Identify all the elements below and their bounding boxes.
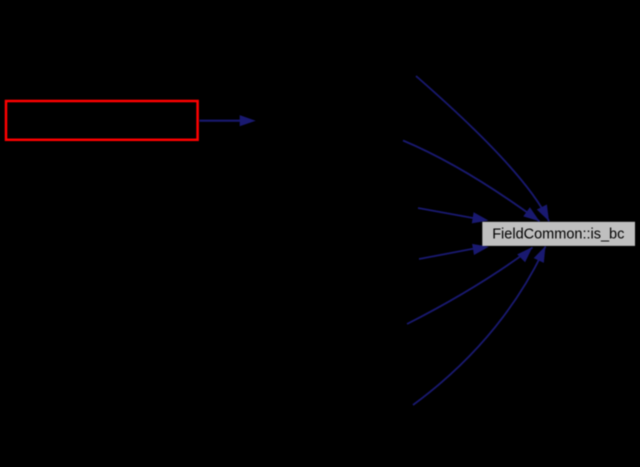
svg-text:FieldCommon::is_bc: FieldCommon::is_bc [492,227,624,243]
arrowhead E [517,247,532,262]
edge D: fourth caller line [419,249,473,259]
edge F: bottom caller curve [413,247,546,406]
node FieldCommon::is_bc (grey box) [482,222,635,246]
edge: red box to hidden node [200,120,242,122]
edge E: fifth caller curve [407,248,533,325]
edge A: top caller curve [416,76,549,221]
arrowhead C [472,212,489,223]
edge B: second caller curve [403,141,540,222]
arrowhead D [472,244,489,255]
arrowhead F [534,246,546,263]
node: current function (red-bordered box, label invisible) [6,101,198,140]
arrowhead B [523,207,539,221]
arrowhead: red box edge [240,115,256,126]
edge C: third caller line [418,208,475,218]
arrowhead A [537,205,549,222]
